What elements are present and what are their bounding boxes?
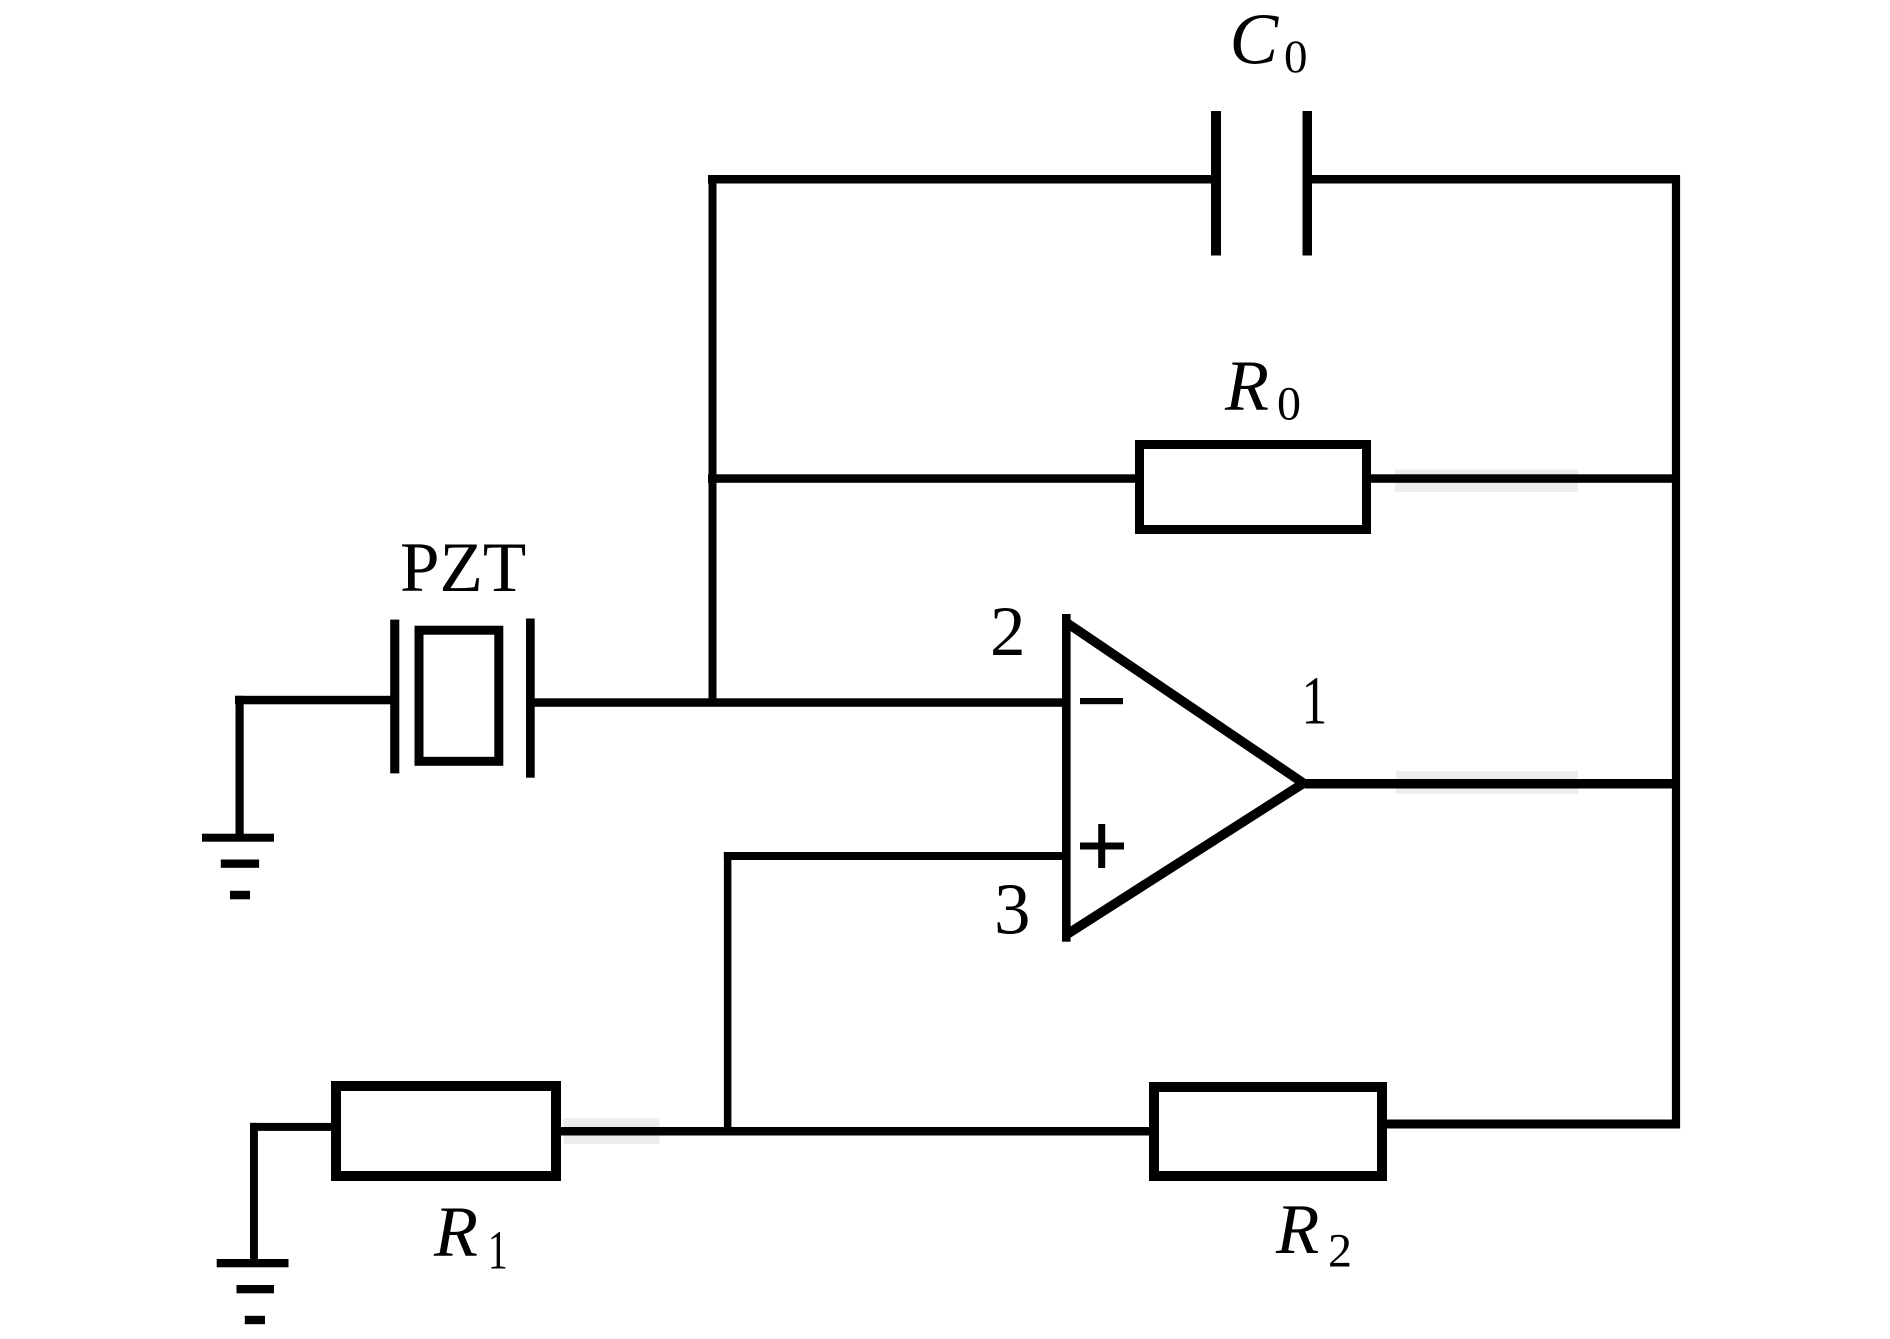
right vertical rail (1672, 175, 1680, 1129)
resistor R0 (1140, 445, 1367, 530)
wire vertical down to ground 1 (236, 696, 244, 837)
wire top-left horizontal (node A to C0 left plate) (708, 175, 1214, 184)
resistor R1 (336, 1086, 556, 1176)
capacitor C0 right plate (1303, 111, 1313, 256)
op-amp minus sign (1080, 698, 1123, 704)
svg-text:1: 1 (488, 1220, 508, 1281)
svg-text:PZT: PZT (400, 529, 526, 607)
wire PZT to op-amp inverting input (533, 698, 1063, 707)
wire vertical from non-inverting down to bottom net (724, 852, 732, 1135)
op-amp output wire (1305, 779, 1680, 789)
svg-text:1: 1 (1302, 663, 1328, 739)
resistor R2 (1154, 1087, 1382, 1176)
wire right of R2 to right rail (1385, 1120, 1680, 1129)
wire top-right horizontal (C0 right plate to right rail) (1308, 175, 1680, 184)
svg-text:R: R (1275, 1191, 1319, 1269)
wire R0 left horizontal (708, 474, 1137, 483)
svg-text:3: 3 (994, 869, 1031, 950)
PZT right electrode (526, 619, 535, 778)
PZT crystal body (419, 630, 499, 761)
svg-text:C: C (1230, 0, 1280, 80)
svg-text:2: 2 (990, 593, 1026, 671)
ground 1 (202, 834, 274, 842)
wire R1 to R2 (junction with non-inverting branch) (559, 1127, 1151, 1136)
PZT left electrode (390, 620, 399, 774)
capacitor C0 left plate (1211, 111, 1221, 256)
wire vertical down to ground 2 (250, 1123, 258, 1263)
op-amp plus sign (1080, 843, 1124, 850)
svg-text:R: R (1224, 346, 1269, 426)
wire vertical from top wire down to inverting node (709, 175, 717, 706)
artifact band right of R0 (1395, 470, 1578, 493)
wire left of PZT (235, 696, 392, 705)
ground 2 (217, 1259, 289, 1267)
wire R0 right horizontal (1369, 474, 1680, 483)
svg-text:0: 0 (1284, 31, 1308, 83)
artifact band right of op-amp output (1396, 771, 1578, 794)
svg-text:2: 2 (1328, 1225, 1352, 1278)
wire left of R1 (250, 1123, 333, 1131)
svg-text:0: 0 (1277, 378, 1301, 431)
svg-text:R: R (433, 1192, 478, 1272)
op-amp U1 triangle (1062, 614, 1071, 942)
artifact band right of R1 (564, 1118, 660, 1144)
wire non-inverting input (724, 852, 1063, 860)
